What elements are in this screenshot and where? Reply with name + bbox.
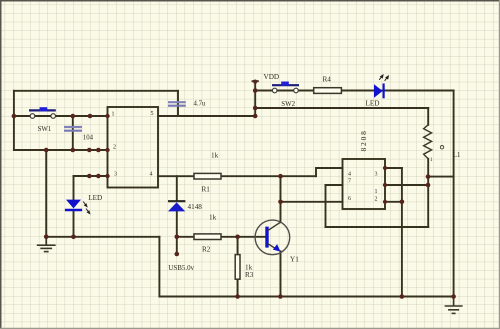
node cap104 bottom [71,148,76,153]
capacitor C2 4.7u [168,102,186,106]
node rail R3 [235,294,240,299]
wire SW2 / R4 / LED2 row [255,90,453,92]
resistor R1 [194,173,221,179]
IC box U1 [108,107,159,188]
node pin2 row x46 [44,148,49,153]
svg-text:R4: R4 [323,76,332,84]
wire box2 right pinA [385,167,402,169]
wire R2 right to transistor base [221,236,266,238]
resistor R4 [314,88,342,94]
wire collector vertical [280,176,282,222]
wire LED1 bottom lead [73,211,75,237]
wire return row y227 [326,226,429,228]
svg-text:L1: L1 [453,151,461,159]
svg-text:7: 7 [348,179,351,185]
svg-text:1: 1 [112,112,115,118]
switch SW1 [29,107,56,118]
svg-text:3: 3 [375,172,378,178]
ground symbol left [37,237,56,252]
svg-text:LED: LED [88,194,102,202]
node rail x402 [400,294,405,299]
svg-text:104: 104 [83,134,94,141]
wire top-left horizontal [14,90,178,92]
wire jog up to box2 pinA [316,168,343,176]
inductor L1 [424,125,444,163]
svg-text:R2: R2 [202,246,211,254]
node collector pinC [278,200,283,205]
node ground row x46 [44,235,49,240]
pin numbers [112,111,378,203]
resistor R2 [194,234,221,240]
wire cap C2 lead [177,91,179,116]
wire R3 bottom lead [237,279,239,296]
svg-text:4: 4 [348,172,351,178]
svg-text:VDD: VDD [264,73,280,81]
node VDD top [253,80,257,84]
wire L1 tap to right rail [428,176,454,178]
LED D3 (top right) [374,75,388,98]
diode D1 4148 [168,201,185,211]
node box2 right pinC [383,200,387,204]
wire diode D1 bottom lead to USB node [176,212,178,255]
svg-text:1k: 1k [209,214,217,222]
node cap104 top [71,114,76,119]
node pin2 at box edge [105,148,109,152]
node L1 pinB [426,183,431,188]
wire box1 pin4 to R1 [158,175,194,177]
wire VDD vertical [254,81,256,116]
wire ground row [46,236,159,238]
svg-text:LED: LED [366,100,380,108]
node pin3 row x89 [87,174,92,179]
node box2 right pinA [383,166,387,170]
node pin1 at box edge [105,114,109,118]
node collector top [278,174,283,179]
wire L1 bottom lead [427,159,429,227]
svg-text:4.7u: 4.7u [194,100,206,107]
svg-text:4148: 4148 [188,203,203,211]
svg-text:USB5.0v: USB5.0v [168,264,194,272]
wire diode D1 top lead [176,176,178,200]
node x402 pinC [400,200,405,205]
svg-text:3: 3 [114,172,117,178]
wire drop to bottom rail [158,237,160,297]
wire right rail vertical [453,91,455,297]
wire L1 top lead [427,108,429,125]
node L1 row [253,106,258,111]
node pin1 row mid [88,114,93,119]
wire box2 right pinC [385,201,402,203]
node R3 top [235,235,240,240]
node USB5.0v [175,252,180,257]
wire box1 pin3 row [74,175,108,177]
wire L1 feed row [255,107,428,109]
node pin5 row end [253,114,258,119]
svg-text:1k: 1k [211,152,219,160]
wire SW1 row / box1 pin1 [14,115,108,117]
svg-text:6: 6 [348,196,351,202]
wire vertical to ground row [45,150,47,237]
wire cap C1 lead [72,116,74,150]
node SW1 row left [12,114,17,119]
wire x402 vertical to rail [401,168,403,297]
wire R1 right to jog [221,175,316,177]
node rail right [451,294,456,299]
wire left edge vertical [13,91,15,150]
switch SW2 [272,82,299,93]
svg-text:Y1: Y1 [290,256,299,264]
node rail emitter [278,294,283,299]
node pin2 row x98 [96,148,101,153]
capacitor C1 104 [64,127,82,131]
svg-text:4: 4 [150,172,153,178]
node L1 tap [426,174,431,179]
svg-text:SW1: SW1 [38,126,52,133]
wire box1 pin2 row [14,149,108,151]
svg-text:8208: 8208 [359,129,368,151]
ground symbol right [445,297,463,314]
node pin2 row x89 [87,148,92,153]
wire emitter vertical [280,251,282,296]
wire x325 vertical [325,185,327,227]
svg-text:2: 2 [113,145,116,151]
IC box U2 [343,159,386,209]
wire R2 left lead [177,236,194,238]
wire R3 top lead [237,237,239,255]
VDD power symbol [252,80,259,82]
svg-text:2: 2 [375,197,378,203]
node SW2 row [253,88,258,93]
LED D2 (left) [65,200,90,214]
node LED1 bottom [71,235,76,240]
node box2 right pinB [383,183,387,187]
wire box1 pin5 row [158,115,255,117]
node pin3 at box edge [105,174,109,178]
wire LED1 top lead [73,176,75,200]
wire box2 right pinB [385,184,428,186]
resistor R3 [235,255,240,280]
svg-text:R3: R3 [245,271,254,279]
transistor Y1 [255,220,290,255]
node pin3 row x98 [96,174,101,179]
wire box2 left pinC row [281,201,343,203]
node R2 left [175,235,180,240]
svg-text:R1: R1 [202,186,211,194]
wire bottom rail [159,296,453,298]
svg-text:1: 1 [375,189,378,195]
svg-text:5: 5 [151,111,154,117]
wire box2 left pinB [326,184,343,186]
svg-text:SW2: SW2 [281,101,295,108]
